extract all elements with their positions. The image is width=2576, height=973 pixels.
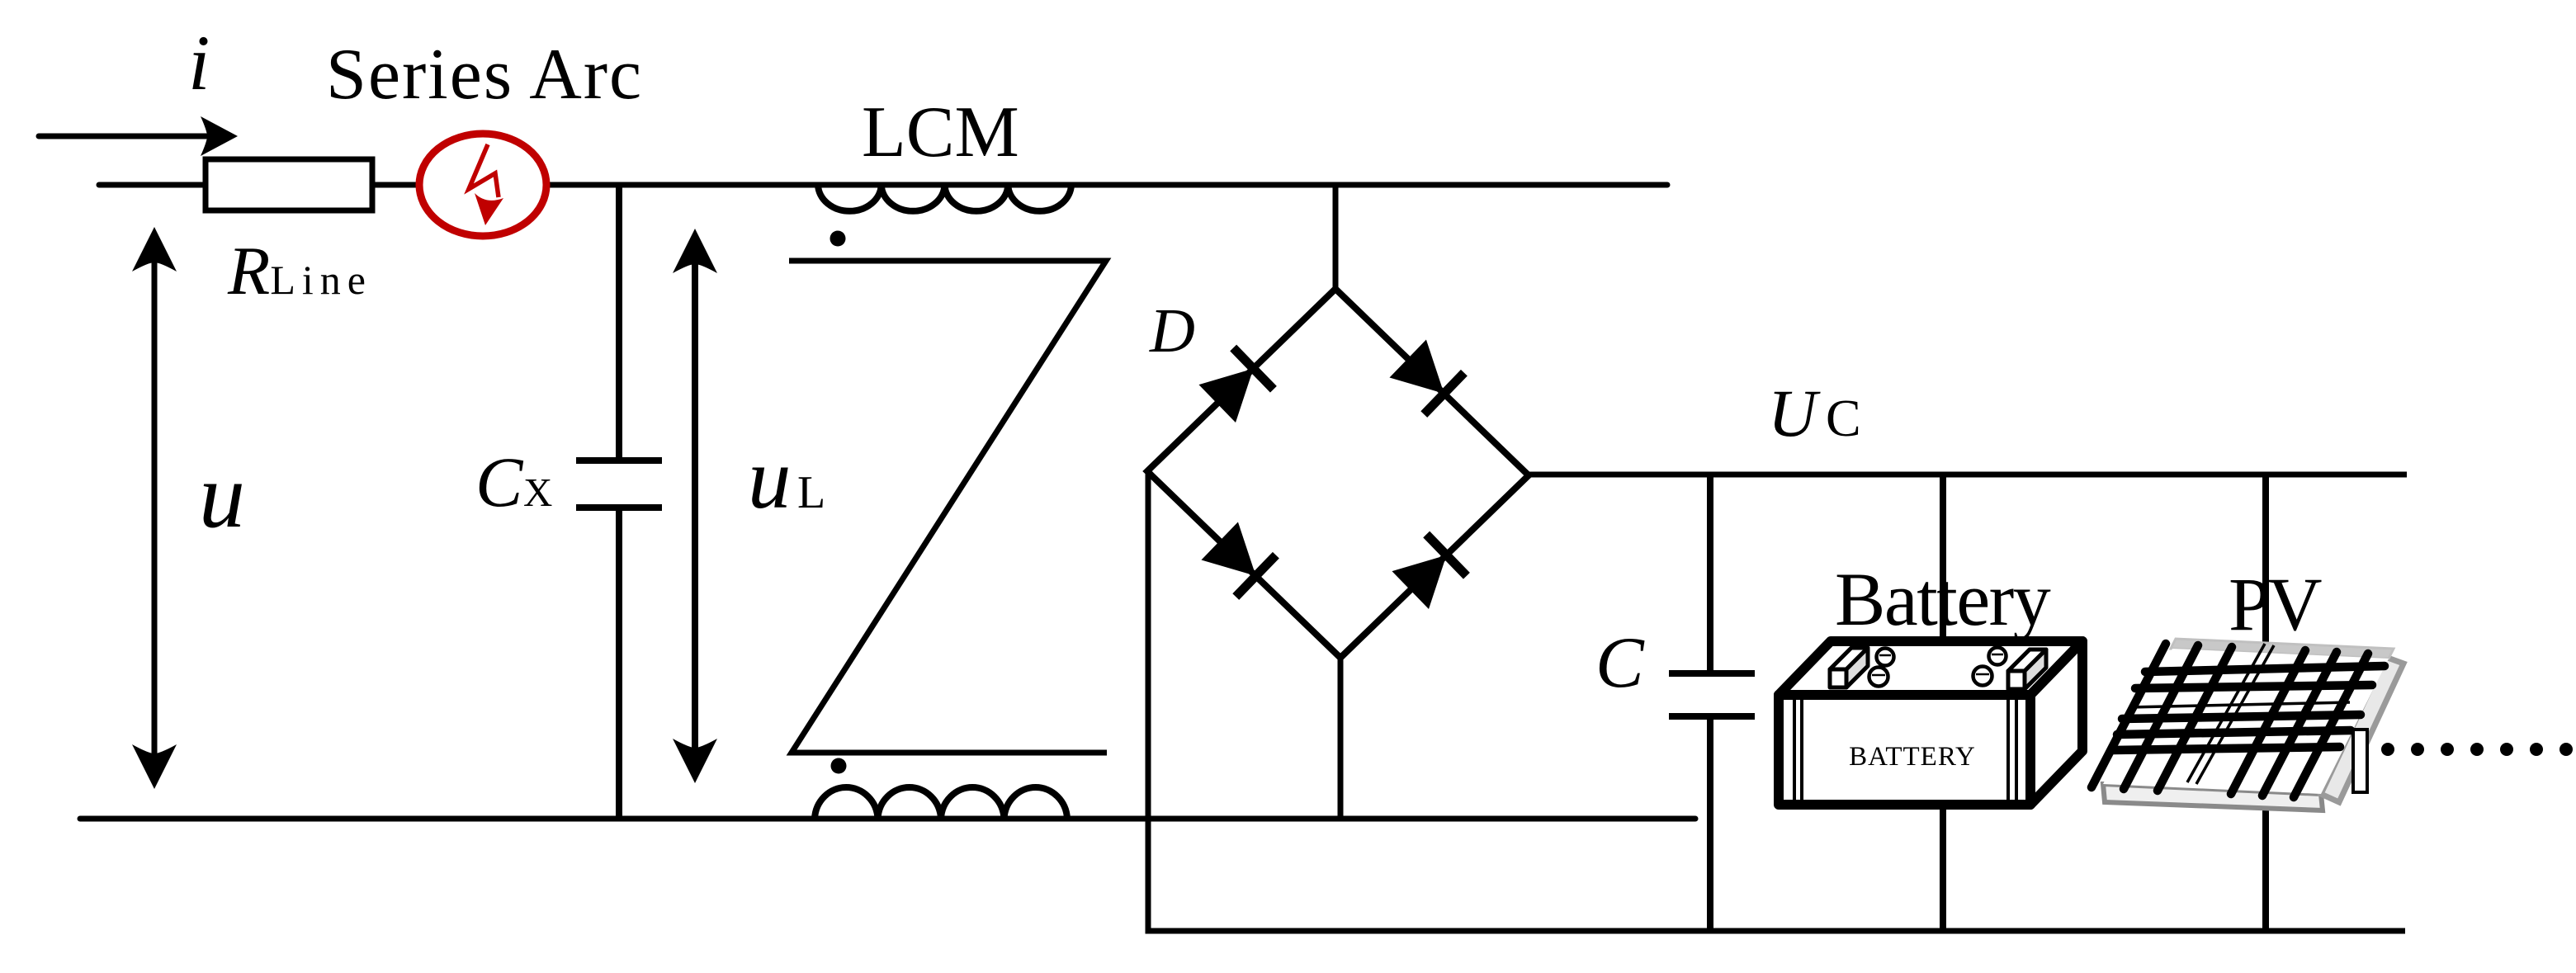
solar panel PV <box>2092 639 2403 810</box>
wire: top AC line <box>99 182 1667 188</box>
svg-text:U: U <box>1768 376 1821 451</box>
diode D1 top-left <box>1197 347 1274 424</box>
panel right band <box>2321 657 2403 802</box>
ellipsis dots <box>2381 743 2573 756</box>
battery front face <box>1779 695 2030 805</box>
wire: bottom AC rail <box>80 816 1695 822</box>
svg-text:Series Arc: Series Arc <box>326 35 643 115</box>
svg-text:LCM: LCM <box>862 92 1019 172</box>
battery right face <box>2030 641 2082 805</box>
battery terminal post right <box>2008 649 2046 689</box>
svg-text:X: X <box>523 470 552 515</box>
panel top band <box>2171 639 2394 659</box>
wire: bridge top lead <box>1333 185 1339 289</box>
series arc source <box>419 134 546 236</box>
svg-text:PV: PV <box>2229 562 2322 646</box>
battery pinstripes <box>1793 700 1796 800</box>
svg-text:C: C <box>475 442 524 522</box>
capacitor Cx <box>576 461 662 508</box>
wire: Cx branch lower <box>616 508 622 819</box>
diode D4 bottom-right <box>1390 534 1467 611</box>
resistor R_Line <box>206 159 372 210</box>
battery terminal post left <box>1830 648 1868 687</box>
voltage arrow uL <box>673 229 717 783</box>
wire: DC minus drop <box>1148 471 2405 931</box>
polarity dot bottom <box>831 758 847 774</box>
panel grid steep lines <box>2092 644 2368 797</box>
svg-text:u: u <box>748 430 792 527</box>
battery top face <box>1779 641 2082 695</box>
LCM core Z <box>789 261 1107 753</box>
svg-text:Battery: Battery <box>1835 557 2051 641</box>
wire: C branch bottom <box>1707 716 1713 931</box>
battery <box>1779 641 2082 805</box>
panel thin double diagonal <box>2129 644 2350 784</box>
polarity dot top <box>830 231 846 247</box>
diode bridge D : diamond <box>1147 289 1529 658</box>
svg-text:BATTERY: BATTERY <box>1849 742 1976 772</box>
svg-text:u: u <box>199 445 245 547</box>
voltage arrow u <box>132 227 177 789</box>
capacitor C <box>1669 673 1755 716</box>
panel face <box>2103 649 2389 794</box>
current arrow i <box>39 116 238 156</box>
battery caps <box>1869 648 2006 687</box>
inductor LCM top winding <box>818 185 1071 211</box>
panel bottom band <box>2103 784 2323 810</box>
svg-text:i: i <box>188 19 210 106</box>
wire: C branch top <box>1707 475 1713 673</box>
wire: battery branch <box>1940 475 1946 931</box>
wire: DC plus rail <box>1529 472 2407 478</box>
inductor LCM bottom winding <box>815 787 1067 819</box>
diode D3 bottom-left <box>1199 520 1276 597</box>
svg-text:C: C <box>1826 389 1861 447</box>
diode D2 top-right <box>1387 338 1464 414</box>
svg-text:C: C <box>1595 623 1645 703</box>
wire: PV branch <box>2262 475 2269 931</box>
wire: Cx branch upper <box>616 185 622 461</box>
panel leg <box>2353 730 2367 792</box>
svg-text:D: D <box>1149 296 1195 366</box>
wire: bridge bottom lead <box>1338 658 1344 819</box>
svg-text:L: L <box>797 467 825 518</box>
panel grid shallow lines <box>2112 666 2385 750</box>
